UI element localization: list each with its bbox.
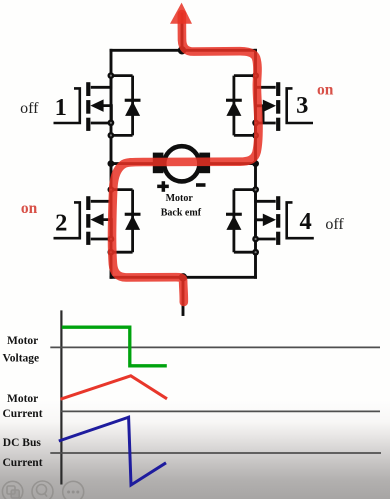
chart axis line 2: [60, 410, 380, 412]
diode D1: [111, 76, 141, 136]
node D3 anode: [252, 132, 259, 139]
diode D4: [226, 190, 256, 253]
svg-text:off: off: [20, 100, 39, 117]
node Q2 source: [108, 236, 115, 243]
svg-text:on: on: [21, 200, 38, 217]
waveform motor current red: [61, 376, 168, 399]
node Q1 source: [108, 119, 115, 126]
node Q3 source: [252, 119, 259, 126]
gate lead Q2: [54, 202, 80, 238]
gate lead Q4: [287, 202, 314, 238]
svg-text:2: 2: [55, 209, 67, 236]
node mid rail right: [252, 160, 259, 167]
wire mid rail left: [111, 162, 154, 165]
gate lead Q1: [54, 88, 80, 123]
wire left branch: [110, 50, 113, 277]
wire bottom supply stub: [182, 277, 185, 314]
svg-text:DC Bus: DC Bus: [3, 437, 42, 449]
node D2 anode: [108, 249, 115, 256]
transistor Q4: [255, 191, 313, 245]
wire mid rail right: [210, 162, 256, 165]
svg-text:3: 3: [296, 92, 308, 119]
motor M1: [153, 146, 210, 181]
player icon more dots: [63, 481, 84, 499]
svg-text:Back emf: Back emf: [161, 208, 202, 219]
svg-text:Current: Current: [3, 408, 43, 420]
node bottom rail junction: [179, 273, 187, 281]
chart axis line 1: [50, 346, 380, 348]
node Q2 drain: [108, 186, 115, 193]
gate lead Q3: [287, 88, 313, 123]
label motor minus: [196, 183, 206, 187]
transistor Q2: [54, 191, 112, 245]
chart axis line 3: [50, 452, 381, 454]
diode D2: [111, 190, 141, 253]
node Q4 source: [252, 236, 259, 243]
node Q3 drain: [252, 72, 259, 79]
player icon magnifier: [32, 481, 53, 499]
svg-text:Motor: Motor: [7, 393, 38, 405]
node D1 anode: [108, 132, 115, 139]
label motor plus: [157, 181, 169, 192]
diode D3: [226, 76, 256, 136]
current arrow head: [170, 3, 192, 24]
node mid rail left: [108, 160, 115, 167]
svg-text:on: on: [317, 81, 334, 98]
svg-text:4: 4: [299, 208, 311, 235]
transistor Q1: [54, 77, 112, 131]
wire top rail: [111, 49, 256, 52]
player icon film: [2, 481, 22, 499]
svg-text:off: off: [325, 216, 344, 233]
svg-text:Motor: Motor: [7, 335, 38, 347]
wire right branch: [254, 50, 257, 277]
waveform dc bus current blue: [59, 417, 166, 485]
svg-text:1: 1: [55, 94, 67, 121]
current path highlight: [112, 14, 258, 302]
wire top supply stub: [181, 14, 184, 50]
node D4 anode: [252, 249, 259, 256]
svg-text:Current: Current: [3, 457, 43, 469]
wire bottom rail: [111, 276, 256, 279]
node Q4 drain: [252, 186, 259, 193]
node Q1 drain: [108, 72, 115, 79]
chart axis vertical: [60, 310, 62, 484]
svg-text:Motor: Motor: [166, 193, 194, 204]
transistor Q3: [255, 77, 313, 131]
node top rail junction: [178, 46, 186, 54]
svg-text:Voltage: Voltage: [3, 353, 40, 365]
waveform motor voltage green: [62, 327, 167, 366]
